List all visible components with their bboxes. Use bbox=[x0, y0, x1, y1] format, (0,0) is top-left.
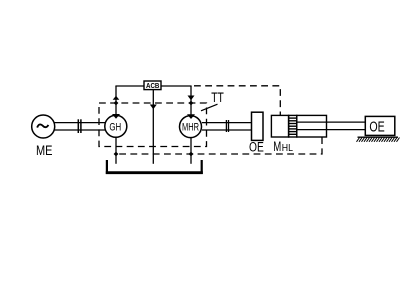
svg-text:ME: ME bbox=[36, 142, 53, 158]
svg-text:HL: HL bbox=[282, 143, 294, 154]
svg-text:OE: OE bbox=[369, 119, 384, 136]
svg-text:TT: TT bbox=[211, 89, 224, 105]
svg-text:GH: GH bbox=[109, 121, 121, 133]
svg-text:ACB: ACB bbox=[146, 81, 160, 90]
svg-text:OE: OE bbox=[249, 139, 264, 154]
svg-text:M: M bbox=[273, 139, 281, 154]
svg-text:MHR: MHR bbox=[182, 122, 199, 134]
